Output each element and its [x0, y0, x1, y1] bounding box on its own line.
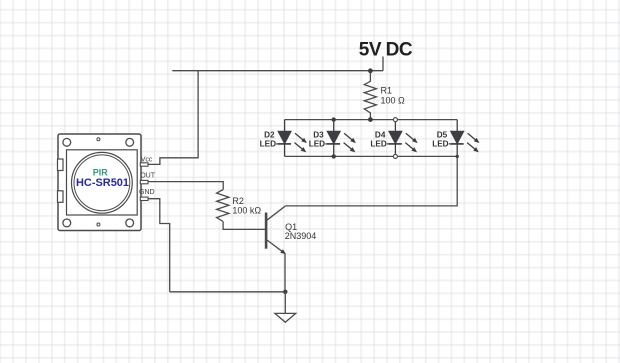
PIR module pin Vcc [140, 163, 148, 166]
node junction R1 bottom [368, 117, 373, 122]
PIR module mounting holes [63, 138, 134, 227]
wire GND pin to ground rail [148, 199, 170, 292]
svg-text:100 Ω: 100 Ω [381, 96, 406, 106]
node junction D5 bottom [456, 155, 459, 158]
node port D4 top [393, 118, 397, 122]
svg-text:LED: LED [432, 139, 448, 148]
wire ground rail [170, 291, 286, 293]
svg-text:100 kΩ: 100 kΩ [232, 206, 261, 216]
wire Vcc to 5V rail [148, 71, 198, 165]
wire LED top bus [285, 119, 458, 121]
LED D4 [387, 120, 418, 157]
ground [275, 292, 296, 323]
PIR module pin labels [139, 156, 156, 196]
node port D4 bottom [393, 154, 397, 158]
svg-text:D5: D5 [437, 131, 448, 140]
transistor Q1 [266, 206, 286, 254]
node junction D3 bottom [332, 154, 336, 158]
svg-text:R1: R1 [381, 86, 393, 96]
wire emitter to ground rail [284, 254, 286, 292]
svg-text:GND: GND [139, 189, 155, 196]
wire OUT to R2 [148, 182, 223, 190]
svg-text:OUT: OUT [140, 173, 156, 180]
wire right edge to collector [285, 156, 457, 206]
node junction emitter/ground [283, 290, 287, 294]
PIR module pin OUT [140, 180, 148, 183]
svg-text:R2: R2 [232, 196, 244, 206]
svg-text:Vcc: Vcc [141, 156, 153, 163]
PIR module HC-SR501 body [58, 134, 141, 231]
svg-text:D2: D2 [264, 131, 275, 140]
svg-text:LED: LED [309, 139, 325, 148]
resistor R1 [364, 71, 376, 120]
svg-text:D3: D3 [313, 131, 324, 140]
resistor R2 [217, 190, 229, 222]
wire R2 to base [223, 222, 266, 230]
svg-text:2N3904: 2N3904 [285, 231, 317, 241]
node junction D3 top [332, 117, 336, 121]
svg-text:D4: D4 [375, 131, 386, 140]
PIR module pin GND [140, 197, 148, 200]
node junction at 5V rail [368, 68, 373, 73]
svg-text:5V DC: 5V DC [359, 39, 413, 60]
PIR module left tabs [58, 159, 64, 202]
wire 5V top rail [172, 70, 383, 72]
wire 5V DC stub [382, 57, 384, 71]
svg-text:LED: LED [260, 139, 276, 148]
LED D5 [449, 120, 480, 157]
wire LED bottom bus [285, 155, 458, 157]
LED D2 [276, 120, 307, 157]
LED D3 [325, 120, 356, 157]
svg-text:LED: LED [370, 139, 386, 148]
svg-text:HC-SR501: HC-SR501 [76, 177, 129, 189]
